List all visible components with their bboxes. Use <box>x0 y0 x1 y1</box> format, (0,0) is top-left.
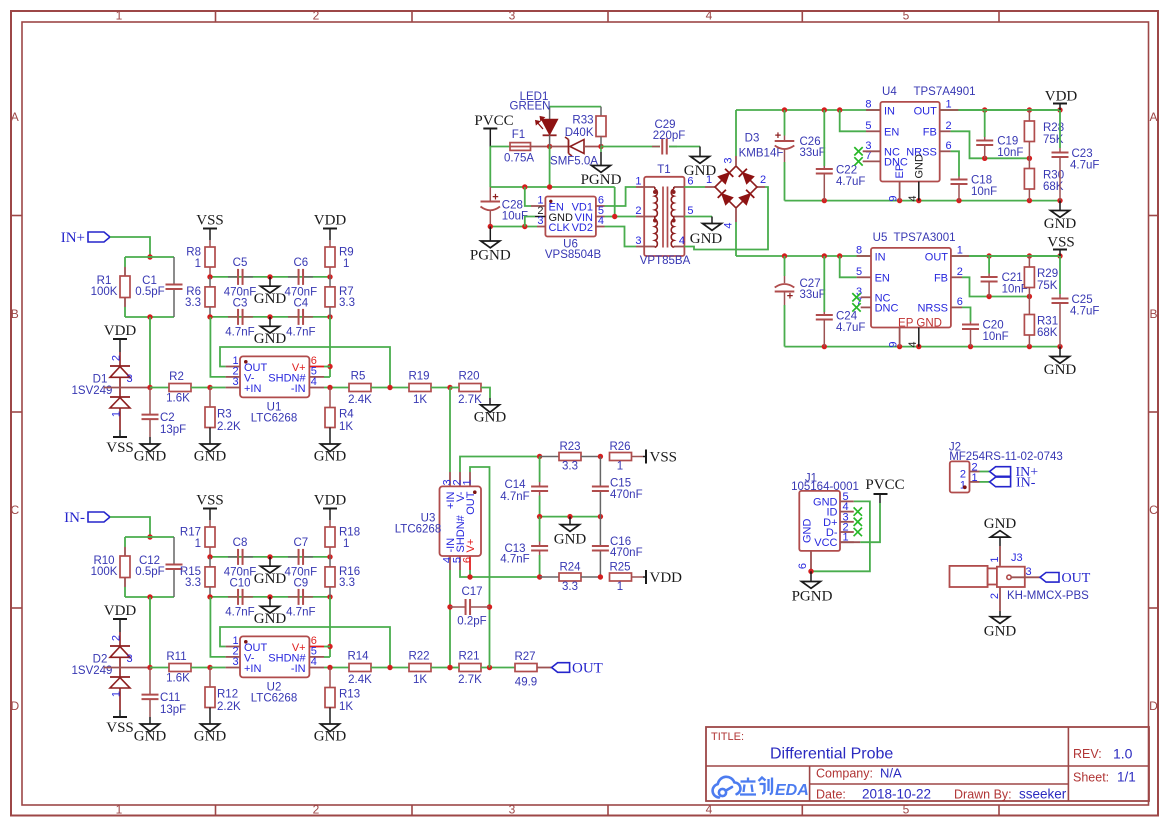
capacitor C28 <box>489 187 491 202</box>
wire EN <box>840 256 857 277</box>
svg-text:1: 1 <box>343 258 349 270</box>
svg-text:4: 4 <box>723 223 735 229</box>
svg-text:VPT85BA: VPT85BA <box>640 255 691 267</box>
svg-text:GND: GND <box>1044 216 1077 232</box>
svg-text:C18: C18 <box>971 175 992 187</box>
wire NRSS <box>951 306 962 308</box>
svg-text:2: 2 <box>946 120 952 132</box>
svg-text:8: 8 <box>856 245 862 257</box>
wire <box>210 667 226 669</box>
svg-text:T1: T1 <box>657 164 670 176</box>
svg-text:4.7nF: 4.7nF <box>225 607 254 619</box>
svg-text:VPS8504B: VPS8504B <box>545 249 602 261</box>
resistor R6 <box>209 277 211 287</box>
svg-text:R19: R19 <box>408 371 429 383</box>
wire rail1 <box>210 556 330 558</box>
svg-text:470nF: 470nF <box>610 547 643 559</box>
svg-text:C6: C6 <box>293 257 308 269</box>
pins 9 and 4 <box>899 182 901 201</box>
svg-text:4: 4 <box>706 803 713 817</box>
svg-text:4.7nF: 4.7nF <box>286 607 315 619</box>
resistor R18 <box>329 520 331 527</box>
svg-text:C23: C23 <box>1072 148 1093 160</box>
svg-text:VSS: VSS <box>106 440 134 456</box>
nc/dnc x marks <box>854 147 862 155</box>
svg-text:LTC6268: LTC6268 <box>395 524 441 536</box>
capacitor C5 <box>228 276 238 278</box>
node bottom <box>537 574 542 579</box>
capacitor C13 <box>539 517 541 542</box>
svg-text:4.7uF: 4.7uF <box>836 322 865 334</box>
resistor R27 <box>481 667 515 669</box>
svg-text:R13: R13 <box>339 689 360 701</box>
svg-text:3: 3 <box>537 215 543 227</box>
svg-text:C15: C15 <box>610 478 631 490</box>
pins 9 and 4 <box>899 328 901 347</box>
VDD port flag <box>645 570 647 584</box>
svg-text:+IN: +IN <box>244 383 261 395</box>
svg-text:EN: EN <box>875 273 890 285</box>
pin 2 J3 <box>999 587 1001 611</box>
svg-text:10nF: 10nF <box>983 331 1009 343</box>
capacitor C9 <box>288 596 298 598</box>
svg-text:sseeker: sseeker <box>1019 787 1067 802</box>
wire -in vertical <box>449 570 451 668</box>
wire T1 pin6 to bridge <box>684 186 705 188</box>
svg-text:4.7nF: 4.7nF <box>286 327 315 339</box>
wire rail2 <box>489 147 491 188</box>
wire T1 pin4 to bridge ac2 <box>684 187 768 250</box>
wire feedback out <box>220 627 390 668</box>
wire EN jog <box>525 187 531 206</box>
resistor R7 <box>329 277 331 287</box>
wire OUT <box>940 109 959 111</box>
LED1 <box>549 107 551 120</box>
ground mid <box>569 517 571 525</box>
VSS flag ladder <box>203 228 217 230</box>
wire pin3 <box>104 387 151 389</box>
op-amp U1 <box>240 356 309 397</box>
wires J2 <box>970 471 980 473</box>
svg-text:3: 3 <box>127 373 133 385</box>
capacitor C10 <box>228 596 238 598</box>
svg-text:D2: D2 <box>93 654 108 666</box>
svg-text:D1: D1 <box>93 374 108 386</box>
resistor R24 <box>540 576 559 578</box>
wire top rail U5 <box>736 255 1060 257</box>
svg-text:1: 1 <box>343 538 349 550</box>
svg-text:VSS: VSS <box>196 493 224 509</box>
svg-text:3: 3 <box>232 656 238 668</box>
svg-text:6: 6 <box>462 557 474 563</box>
svg-text:R29: R29 <box>1037 268 1058 280</box>
svg-text:1/1: 1/1 <box>1117 770 1136 785</box>
VSS port flag <box>645 450 647 464</box>
capacitor C12 <box>173 537 175 565</box>
svg-text:2.2K: 2.2K <box>217 701 241 713</box>
wire + ground <box>669 146 700 148</box>
svg-text:1: 1 <box>195 538 201 550</box>
diode D1 <box>119 352 121 366</box>
svg-text:OUT: OUT <box>914 105 938 117</box>
resistor R3 <box>209 388 211 408</box>
svg-text:R11: R11 <box>166 651 186 663</box>
ground mid1 <box>267 274 272 279</box>
svg-text:1: 1 <box>111 691 123 697</box>
diode D? SMF5.0A tvs <box>550 146 569 148</box>
svg-text:1: 1 <box>635 176 641 188</box>
svg-text:2.4K: 2.4K <box>348 394 372 406</box>
svg-text:3.3: 3.3 <box>185 577 201 589</box>
op-amp U3 <box>449 472 451 486</box>
wire pin3 <box>104 667 151 669</box>
svg-text:5: 5 <box>903 803 910 817</box>
svg-text:N/A: N/A <box>880 766 902 781</box>
capacitor C20 <box>970 322 972 325</box>
wire VD2 to T1 pin3 <box>605 227 637 247</box>
svg-text:33uF: 33uF <box>800 147 826 159</box>
svg-text:3: 3 <box>127 653 133 665</box>
x marks J1 <box>854 507 862 515</box>
svg-text:3: 3 <box>723 158 735 164</box>
capacitor C3 <box>228 316 238 318</box>
svg-text:3.3: 3.3 <box>562 581 578 593</box>
ground mid2 <box>267 314 272 319</box>
svg-text:6: 6 <box>797 563 809 569</box>
svg-text:1K: 1K <box>413 674 427 686</box>
svg-text:EN: EN <box>884 127 899 139</box>
svg-text:PVCC: PVCC <box>474 113 513 129</box>
bridge D3 KMB14F <box>715 166 757 208</box>
svg-text:3: 3 <box>509 803 516 817</box>
svg-text:2: 2 <box>111 635 123 641</box>
capacitor C26 <box>784 110 786 136</box>
svg-text:KH-MMCX-PBS: KH-MMCX-PBS <box>1007 590 1089 602</box>
svg-text:4: 4 <box>907 342 919 348</box>
svg-text:0.5pF: 0.5pF <box>135 286 164 298</box>
capacitor C4 <box>288 316 298 318</box>
svg-text:VDD: VDD <box>314 493 347 509</box>
VDD flag ladder <box>323 228 337 230</box>
svg-text:GND: GND <box>254 331 287 347</box>
svg-text:4: 4 <box>706 9 713 23</box>
wire gnd rail U5 <box>785 346 1061 348</box>
wire <box>110 237 150 257</box>
wire v- to rail2 <box>210 597 225 657</box>
svg-text:6: 6 <box>946 140 952 152</box>
svg-text:2.7K: 2.7K <box>458 674 482 686</box>
svg-text:B: B <box>11 307 19 321</box>
svg-text:0.2pF: 0.2pF <box>457 616 486 628</box>
svg-text:75K: 75K <box>1037 280 1058 292</box>
svg-text:+: + <box>775 130 781 142</box>
resistor R10 <box>120 556 130 578</box>
wire gnd rail U4 <box>785 200 1061 202</box>
node vdiv <box>537 454 542 459</box>
svg-text:6: 6 <box>957 296 963 308</box>
svg-text:GND: GND <box>554 532 587 548</box>
svg-text:REV:: REV: <box>1073 747 1102 761</box>
diode D2 <box>119 632 121 646</box>
svg-text:VDD: VDD <box>650 570 683 586</box>
svg-text:B: B <box>1149 307 1157 321</box>
resistor R22 <box>409 664 431 672</box>
svg-text:220pF: 220pF <box>653 130 686 142</box>
svg-text:PVCC: PVCC <box>865 477 904 493</box>
wire EN <box>840 110 866 131</box>
wire <box>110 517 150 537</box>
ground PGND <box>600 147 602 153</box>
svg-text:1: 1 <box>989 557 1001 563</box>
logo lceda <box>713 777 741 798</box>
svg-text:LTC6268: LTC6268 <box>251 413 297 425</box>
ground <box>481 405 500 413</box>
svg-text:-IN: -IN <box>291 663 306 675</box>
svg-text:OUT: OUT <box>572 661 603 677</box>
svg-text:VCC: VCC <box>814 537 837 549</box>
wire R20 to ground <box>481 388 490 399</box>
svg-text:C8: C8 <box>233 537 248 549</box>
svg-text:1: 1 <box>195 258 201 270</box>
svg-text:3: 3 <box>232 376 238 388</box>
svg-text:R8: R8 <box>186 247 201 259</box>
svg-text:U5: U5 <box>873 232 888 244</box>
svg-text:GND: GND <box>474 409 507 425</box>
wire T1 pin5 to gnd <box>684 216 712 218</box>
VDD flag <box>113 338 127 340</box>
svg-text:470nF: 470nF <box>610 489 643 501</box>
wire J1 gnd <box>811 501 870 571</box>
svg-text:IN-: IN- <box>1016 476 1036 491</box>
svg-text:R24: R24 <box>559 562 581 574</box>
wire v- to rail2 <box>210 317 225 377</box>
capacitor C14 <box>539 457 541 483</box>
svg-text:EDA: EDA <box>775 782 809 799</box>
resistor R30 <box>1028 158 1030 168</box>
ground <box>321 444 340 452</box>
svg-text:KMB14F: KMB14F <box>739 148 784 160</box>
transformer T1 <box>644 177 684 256</box>
wire <box>125 536 174 538</box>
svg-text:100K: 100K <box>91 566 118 578</box>
svg-text:J3: J3 <box>1011 552 1023 564</box>
wire out route <box>470 467 490 668</box>
svg-text:2: 2 <box>760 174 766 186</box>
svg-text:A: A <box>11 110 19 124</box>
svg-text:GND: GND <box>254 291 287 307</box>
svg-text:2: 2 <box>635 205 641 217</box>
IC U6 VPS8504B <box>545 197 596 237</box>
svg-text:4.7uF: 4.7uF <box>1070 306 1099 318</box>
svg-text:4.7uF: 4.7uF <box>1070 160 1099 172</box>
capacitor C7 <box>288 556 298 558</box>
svg-text:3: 3 <box>635 235 641 247</box>
ground <box>201 724 220 732</box>
svg-text:GND: GND <box>914 154 926 179</box>
ground <box>321 724 340 732</box>
svg-text:GND: GND <box>984 516 1017 532</box>
svg-text:R4: R4 <box>339 409 354 421</box>
svg-text:R21: R21 <box>458 651 479 663</box>
wire bridge bottom <box>735 208 737 222</box>
svg-text:2.2K: 2.2K <box>217 421 241 433</box>
svg-text:VD2: VD2 <box>572 222 593 234</box>
svg-text:R26: R26 <box>609 441 630 453</box>
wire v+ <box>324 646 330 648</box>
svg-text:CLK: CLK <box>549 222 571 234</box>
svg-text:C: C <box>10 503 19 517</box>
svg-text:2: 2 <box>313 803 320 817</box>
svg-text:C3: C3 <box>233 297 248 309</box>
svg-text:2: 2 <box>989 593 1001 599</box>
wire top rail U4 <box>736 109 1060 111</box>
svg-text:OUT: OUT <box>465 491 477 515</box>
wire shdn/v+ tie <box>460 570 540 577</box>
resistor R1 <box>120 276 130 298</box>
svg-text:TITLE:: TITLE: <box>711 731 744 743</box>
svg-text:TPS7A4901: TPS7A4901 <box>913 86 975 98</box>
svg-text:-IN: -IN <box>291 383 306 395</box>
svg-text:3.3: 3.3 <box>185 297 201 309</box>
resistor R4 <box>329 388 331 408</box>
svg-text:Company:: Company: <box>816 767 873 781</box>
svg-text:R30: R30 <box>1043 170 1064 182</box>
svg-text:GND: GND <box>1044 362 1077 378</box>
svg-text:R28: R28 <box>1043 122 1064 134</box>
svg-text:D40K: D40K <box>565 127 594 139</box>
svg-text:V+: V+ <box>465 539 477 553</box>
capacitor C22 <box>823 110 825 166</box>
wire FB <box>951 276 962 278</box>
svg-text:GND: GND <box>134 729 167 745</box>
svg-text:4: 4 <box>679 235 685 247</box>
ground <box>201 444 220 452</box>
wire -in <box>324 667 349 669</box>
wire mid <box>540 516 601 518</box>
resistor R19 <box>409 384 431 392</box>
capacitor C11 <box>149 668 151 695</box>
wire VIN <box>605 216 637 218</box>
svg-text:PGND: PGND <box>792 589 833 605</box>
svg-text:Differential Probe: Differential Probe <box>770 746 893 763</box>
wire NRSS <box>940 150 951 152</box>
svg-text:1K: 1K <box>339 701 353 713</box>
ground <box>149 437 151 444</box>
svg-text:TPS7A3001: TPS7A3001 <box>893 232 955 244</box>
svg-text:C17: C17 <box>461 586 482 598</box>
svg-text:IN: IN <box>884 105 895 117</box>
svg-text:1: 1 <box>462 479 474 485</box>
wire FB <box>940 130 951 132</box>
svg-text:1: 1 <box>957 245 963 257</box>
VSS flag <box>119 710 121 717</box>
port OUT J3 <box>1040 573 1059 583</box>
svg-text:+IN: +IN <box>244 663 261 675</box>
svg-text:100K: 100K <box>91 286 118 298</box>
resistor R12 <box>209 668 211 688</box>
svg-text:OUT: OUT <box>925 251 949 263</box>
svg-text:2: 2 <box>111 355 123 361</box>
resistor R5 <box>349 384 371 392</box>
wire rail2 <box>210 596 330 598</box>
svg-text:1K: 1K <box>413 394 427 406</box>
capacitor C17 <box>450 606 466 608</box>
svg-text:R9: R9 <box>339 247 354 259</box>
resistor R31 <box>1028 297 1030 315</box>
svg-text:10nF: 10nF <box>971 186 997 198</box>
svg-text:C24: C24 <box>836 311 858 323</box>
resistor R23 <box>540 456 559 458</box>
wire bridge top <box>735 156 737 166</box>
resistor R17 <box>209 520 211 527</box>
svg-text:9: 9 <box>888 196 900 202</box>
svg-text:GND: GND <box>134 449 167 465</box>
svg-text:C10: C10 <box>229 577 250 589</box>
resistor R16 <box>329 557 331 567</box>
svg-text:D3: D3 <box>745 133 760 145</box>
svg-text:EP: EP <box>894 164 906 179</box>
nc/dnc x marks <box>852 293 860 301</box>
resistor R25 <box>610 573 632 581</box>
svg-text:VDD: VDD <box>1045 89 1078 105</box>
resistor R11 <box>150 667 169 669</box>
capacitor C23 <box>1059 110 1061 148</box>
svg-text:FB: FB <box>923 127 937 139</box>
svg-text:Date:: Date: <box>816 788 846 802</box>
svg-text:C9: C9 <box>293 577 308 589</box>
wire v- to r23 <box>460 457 540 473</box>
svg-text:R2: R2 <box>169 371 184 383</box>
pin 6 shell <box>810 551 812 571</box>
IC U5 TPS7A3001 <box>857 255 871 257</box>
capacitor C27 <box>784 256 786 276</box>
svg-text:GND: GND <box>314 729 347 745</box>
svg-text:R12: R12 <box>217 689 238 701</box>
svg-text:DNC: DNC <box>875 303 899 315</box>
resistor R8 <box>209 240 211 247</box>
svg-text:VSS: VSS <box>1047 235 1075 251</box>
VSS flag <box>119 430 121 437</box>
resistor R13 <box>329 668 331 688</box>
svg-text:2.4K: 2.4K <box>348 674 372 686</box>
svg-text:1: 1 <box>706 174 712 186</box>
svg-text:4: 4 <box>598 215 604 227</box>
svg-text:C21: C21 <box>1002 272 1023 284</box>
capacitor C25 <box>1059 256 1061 294</box>
svg-text:3.3: 3.3 <box>339 297 355 309</box>
svg-text:C2: C2 <box>160 412 175 424</box>
svg-text:4.7nF: 4.7nF <box>225 327 254 339</box>
port IN+ J2 <box>990 467 1011 477</box>
resistor R29 <box>1028 256 1030 267</box>
wire v+ <box>324 366 330 368</box>
svg-text:3: 3 <box>1026 566 1032 578</box>
wire J1 vcc to PVCC <box>840 541 860 543</box>
svg-text:1: 1 <box>946 99 952 111</box>
wire <box>125 256 174 258</box>
wire vdd to pins <box>329 597 331 657</box>
svg-text:4.7uF: 4.7uF <box>836 176 865 188</box>
capacitor C15 <box>599 457 601 487</box>
svg-text:R20: R20 <box>458 371 479 383</box>
svg-text:GND: GND <box>802 519 814 544</box>
svg-text:GND: GND <box>690 231 723 247</box>
VDD flag <box>113 618 127 620</box>
capacitor C29 <box>601 146 660 148</box>
svg-text:1.6K: 1.6K <box>166 673 190 685</box>
svg-text:2: 2 <box>957 266 963 278</box>
svg-text:Sheet:: Sheet: <box>1073 771 1109 785</box>
